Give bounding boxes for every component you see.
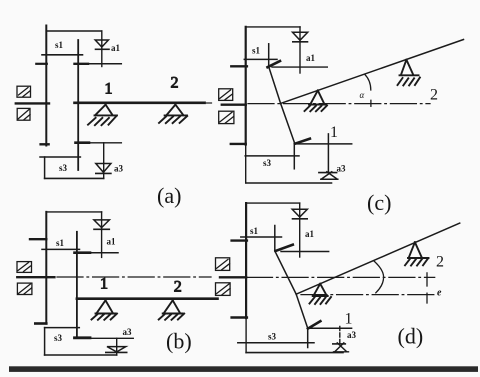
bearing under shaft 2 (159, 300, 185, 320)
angle arc (365, 74, 371, 90)
bevel cone line s1 (269, 67, 281, 103)
carrier bottom wire (45, 177, 104, 179)
svg-text:(a): (a) (157, 183, 181, 208)
gear tooth thick part (75, 63, 89, 65)
gear s3 tooth mark (308, 321, 321, 328)
svg-text:1: 1 (345, 311, 353, 328)
brake a1 bar (293, 218, 308, 220)
bearing under gear 1 (92, 300, 118, 320)
gear s3 shaft (293, 144, 295, 169)
svg-text:a1: a1 (107, 237, 117, 247)
bearing on shaft 2 near apex (305, 90, 328, 111)
svg-text:e: e (437, 288, 442, 299)
svg-text:2: 2 (436, 254, 444, 271)
bearing on shaft 2 upper (405, 242, 429, 265)
brake a3 bar (333, 343, 346, 345)
gear tooth tick on frame (231, 65, 247, 67)
output shaft 1-2 (75, 102, 205, 105)
bevel gear s1 tooth mark (276, 245, 293, 251)
frame bearing box lower (216, 283, 231, 296)
brake a1 triangle (94, 220, 110, 228)
frame vertical thin lower (245, 145, 247, 183)
input shaft stub (207, 102, 212, 104)
svg-text:s1: s1 (252, 46, 261, 56)
dimension tick upper (426, 273, 428, 286)
brake a3 bar (106, 351, 127, 353)
brake a3 triangle (107, 347, 126, 352)
svg-text:a3: a3 (337, 164, 347, 174)
gear shaft V2 foot tick (75, 336, 91, 339)
centreline axis (57, 276, 211, 278)
svg-text:(c): (c) (367, 190, 391, 215)
brake a3 lead (103, 143, 105, 179)
gear shaft V2 (76, 232, 78, 338)
bevel gear s1 tooth mark (268, 61, 281, 67)
gear shaft V2 foot tick (76, 141, 90, 144)
carrier left wire (44, 157, 46, 178)
angle arc (374, 261, 384, 293)
centreline main axis (247, 276, 435, 278)
wire top horizontal (246, 202, 300, 204)
wire gear row to a1 (281, 251, 329, 253)
gear s3 hub line (238, 342, 314, 344)
svg-text:s1: s1 (55, 40, 64, 50)
input shaft (220, 276, 246, 278)
gear s3 hub line (245, 155, 299, 157)
brake a1 bar (293, 41, 308, 43)
gear s1 hub line (241, 236, 282, 238)
gear s1 shaft (274, 226, 276, 252)
brake a1 triangle (292, 209, 307, 217)
shaft V1 (gear s1 left wheel / central vertical) (45, 26, 47, 146)
svg-text:(b): (b) (166, 329, 192, 354)
svg-text:a3: a3 (347, 330, 357, 340)
svg-text:a1: a1 (111, 43, 121, 53)
frame bearing box upper (216, 258, 230, 271)
brake a1 bar (96, 48, 110, 50)
svg-text:1: 1 (100, 276, 108, 293)
brake a3 triangle (321, 172, 338, 179)
gear s1 hub line (42, 54, 83, 56)
frame bearing box upper (17, 86, 31, 97)
gear tooth tick left (30, 238, 46, 240)
gear s3 hub line (40, 156, 80, 158)
brake a3 base (334, 351, 349, 353)
frame bearing box lower (219, 111, 234, 123)
brake a3 lead (116, 338, 118, 355)
shaft 1 horizontal (309, 327, 352, 329)
output shaft 1-2 offset (77, 297, 218, 300)
shaft V1 foot tick (41, 143, 49, 145)
wire to brake a3 (88, 337, 133, 339)
svg-text:a1: a1 (306, 53, 316, 63)
svg-text:a3: a3 (114, 164, 124, 174)
brake a3 triangle (335, 343, 347, 352)
svg-text:α: α (360, 90, 365, 100)
svg-text:s3: s3 (54, 333, 63, 343)
gear tooth line right to a1 (75, 63, 122, 65)
brake a1 triangle (95, 40, 108, 47)
gear s3 tooth mark (295, 139, 310, 144)
brake a1 lead (101, 212, 103, 258)
gear tooth tick left (36, 63, 47, 65)
frame bearing box lower (17, 283, 32, 294)
shaft V1 (45, 212, 47, 324)
brake a1 triangle (293, 32, 308, 40)
shaft 1 vertical (327, 134, 329, 173)
carrier bottom wire (45, 354, 117, 356)
centreline axis (248, 103, 430, 105)
frame bottom wire (246, 182, 331, 184)
svg-text:s3: s3 (263, 158, 272, 168)
svg-text:a3: a3 (123, 327, 133, 337)
wire top horizontal (246, 26, 300, 28)
svg-text:2: 2 (430, 87, 438, 104)
bevel cone line s3 (296, 294, 308, 329)
brake a1 bar (94, 228, 109, 230)
gear s3 shaft (307, 329, 309, 348)
input shaft (222, 103, 246, 105)
gear tooth thick part (75, 251, 91, 254)
frame bottom wire (246, 352, 343, 354)
gear tooth tick on frame lower (232, 316, 247, 318)
bevel cone line s3 (281, 103, 295, 143)
gear tooth tick on frame lower (231, 143, 246, 145)
frame vertical (245, 203, 247, 318)
wire gear row to a1 (272, 66, 327, 68)
gear shaft V2 (77, 40, 79, 170)
svg-text:1: 1 (330, 124, 338, 141)
bearing on shaft 2 upper (398, 60, 420, 86)
bottom scan bar (9, 366, 478, 372)
shaft V1 foot tick (35, 322, 46, 325)
svg-text:s1: s1 (56, 238, 65, 248)
dimension tick lower (426, 293, 428, 303)
brake a3 dashed lead (339, 327, 341, 344)
svg-text:2: 2 (174, 279, 182, 296)
brake a1 lead (299, 203, 301, 257)
gear s1 shaft (268, 44, 270, 67)
wire top horizontal to brake a1 (46, 211, 101, 213)
frame vertical thin lower (245, 318, 247, 353)
bevel cone line s1 (275, 252, 296, 294)
carrier left wire (44, 328, 46, 355)
gear s1 hub line (244, 58, 277, 60)
input shaft (16, 102, 49, 104)
gear tooth tick on frame (232, 239, 247, 241)
angle arc end tick (370, 100, 372, 106)
brake a3 triangle (96, 164, 111, 173)
frame vertical (245, 27, 247, 145)
svg-text:2: 2 (171, 75, 179, 92)
svg-text:(d): (d) (398, 324, 424, 349)
gear s3 hub line (45, 327, 80, 329)
wire top horizontal to brake a1 (46, 30, 102, 32)
input shaft (17, 276, 54, 278)
frame bearing box upper (17, 262, 32, 273)
bearing under shaft 2 (159, 105, 187, 124)
inclined shaft 2 (281, 40, 464, 104)
wire to brake a3 (83, 142, 121, 144)
brake a1 lead (101, 31, 103, 67)
brake a3 bar (319, 172, 337, 174)
frame bearing box lower (17, 108, 30, 120)
svg-text:s3: s3 (268, 332, 277, 342)
shaft 1 horizontal (295, 143, 352, 145)
gear s1 hub line (42, 248, 80, 250)
svg-text:s1: s1 (250, 226, 259, 236)
frame bearing box upper (219, 89, 233, 101)
bearing on shaft 2 near apex (310, 284, 332, 304)
brake a3 bar (96, 172, 111, 174)
brake a1 lead (299, 27, 301, 73)
centreline shaft 2 axis (301, 294, 435, 296)
svg-text:1: 1 (105, 81, 113, 98)
bearing under gear 1 (88, 105, 117, 126)
gear tooth line right (75, 252, 119, 254)
inclined shaft 2 (296, 223, 460, 294)
svg-text:s3: s3 (59, 163, 68, 173)
svg-text:a1: a1 (305, 229, 315, 239)
